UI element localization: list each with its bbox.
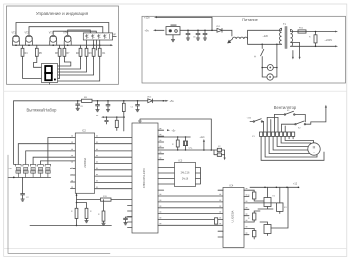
wire bottom return [8, 155, 110, 253]
relay coil K3 [260, 187, 288, 235]
node junction dots bus [15, 44, 100, 46]
svg-text:IC3: IC3 [179, 159, 183, 162]
pushbutton SB4 [38, 164, 44, 177]
resistor R15 [77, 203, 93, 223]
capacitor C9 [96, 101, 100, 112]
varistor RU1 [309, 31, 317, 47]
wire choke to transformer [248, 30, 282, 39]
wire secondary bottom [291, 45, 336, 47]
svg-text:ULN2003A: ULN2003A [232, 210, 235, 222]
resistor R5 [35, 45, 42, 58]
node +12v pin arrow [200, 137, 206, 150]
svg-text:+5v: +5v [170, 99, 175, 103]
svg-text:сто: сто [9, 168, 12, 170]
capacitor C7 [203, 30, 207, 40]
wire IC1 to IC3 rows [158, 168, 175, 185]
node junctions on rail [187, 30, 213, 32]
svg-text:C6: C6 [193, 37, 195, 39]
transistor VT4 [63, 33, 71, 46]
IC DD2 [75, 130, 94, 194]
svg-text:~220V: ~220V [325, 38, 333, 42]
svg-text:24c16: 24c16 [182, 179, 189, 181]
node +5v arrow [166, 99, 175, 103]
svg-text:24LC16: 24LC16 [181, 172, 190, 175]
wire button track 3 [33, 157, 70, 164]
node rail junctions [77, 100, 164, 102]
svg-text:+12v: +12v [144, 16, 150, 20]
pushbutton SB2 [23, 164, 29, 177]
svg-text:+12v: +12v [200, 137, 206, 139]
lamp HL2 [267, 44, 277, 80]
resistor R4 [21, 45, 28, 58]
svg-text:C8: C8 [80, 106, 82, 108]
svg-text:+5v: +5v [145, 28, 150, 32]
capacitor C13 [21, 177, 30, 201]
voltage regulator DA1 [166, 24, 180, 35]
resistor R7 [63, 45, 70, 58]
wire IC1 left lower stubs [128, 206, 133, 228]
IC IC4 [223, 184, 244, 247]
wire IC4 left extra stubs [218, 190, 223, 237]
diode VD2 [147, 97, 153, 103]
wire IC2 left pin stubs [71, 138, 76, 189]
wire display bottom [49, 83, 51, 85]
svg-text:VT4: VT4 [63, 33, 68, 35]
ground (regulator) [171, 35, 174, 42]
wire IC2 to IC1 rows [95, 138, 132, 189]
pushbutton SB3 [30, 164, 36, 177]
wire IC1 right pin stubs [158, 130, 164, 190]
inductor L1 [228, 37, 248, 43]
switch SA1 [254, 44, 267, 77]
wire IC3 right stubs [196, 168, 201, 185]
lamp HL1 [261, 65, 277, 71]
wire driver bottom pins [87, 40, 100, 50]
wire bus C [53, 31, 96, 35]
resistor R11 [172, 137, 179, 150]
resistor R21 [249, 228, 256, 239]
relay coil K1 [258, 187, 276, 209]
capacitor C11 [131, 101, 140, 112]
resistor R17 [115, 116, 118, 130]
diode VD1 [216, 26, 222, 32]
node output arrows [335, 31, 338, 48]
wire keyboard left drop [14, 101, 16, 165]
wire IC4 right pin stubs [244, 190, 249, 235]
wire contact drops [264, 115, 286, 132]
contact K1.1 [274, 110, 305, 122]
wire button track 2 [26, 151, 71, 165]
wire XTAL top [158, 136, 190, 137]
wire reset line [96, 115, 124, 118]
resistor R10 [122, 101, 125, 131]
resistor R6 [55, 45, 61, 58]
wire secondary taps [291, 43, 301, 60]
node +5v pin arrow [158, 129, 176, 132]
node bus end arrow [13, 44, 112, 46]
wire +5V out [156, 29, 165, 31]
contact SA2 [247, 118, 264, 123]
svg-text:VT2: VT2 [25, 33, 30, 35]
IC DD1 [132, 120, 158, 233]
IC IC3 [175, 159, 196, 186]
connector X2 [214, 146, 226, 160]
block frame: Питание [142, 16, 346, 83]
relay coil K2 [249, 187, 287, 213]
svg-text:C1: C1 [131, 107, 133, 109]
resistor R8 [92, 45, 95, 58]
resistor R9 [82, 97, 93, 102]
wire secondary top [306, 31, 335, 33]
pushbutton SB1 [16, 164, 22, 177]
node +12V [144, 16, 157, 20]
resistor R1 [98, 45, 106, 58]
resistor R20 [248, 211, 260, 222]
node pin number marks [71, 128, 247, 234]
svg-text:Вентилятор: Вентилятор [274, 105, 297, 110]
svg-text:~220: ~220 [263, 35, 269, 38]
wire keyboard common bus [8, 176, 51, 178]
capacitor C5 [186, 30, 190, 40]
wire button track 1 [18, 144, 70, 165]
capacitor C14 [124, 217, 133, 225]
transistor VT2 [25, 33, 33, 46]
wire IC1 to IC4 rows [158, 196, 223, 225]
svg-text:Управление и индикация: Управление и индикация [36, 11, 89, 16]
wire XTAL bottom / X2 feed [158, 149, 217, 151]
svg-text:ДП: ДП [113, 34, 116, 36]
wire resistor bottoms to display [23, 59, 100, 82]
wire fan feed arrow [311, 105, 327, 122]
wire regulator output rail [180, 30, 232, 36]
wire +12 rail (drivers) [250, 187, 299, 189]
wire long top feed [140, 119, 211, 150]
node +5V [145, 28, 157, 32]
capacitor C15 [105, 116, 109, 124]
resistor R3 [85, 45, 92, 58]
svg-text:Вытяжка\Набор: Вытяжка\Набор [27, 108, 58, 113]
capacitor C6 [193, 30, 200, 40]
capacitor C10 [106, 101, 110, 112]
motor M1 [308, 143, 320, 155]
block frame: Управление и индикация [7, 6, 119, 84]
node bus junction [13, 177, 15, 179]
connector X1 terminal strip [252, 132, 295, 138]
wire under bottom [30, 225, 111, 227]
svg-text:+12: +12 [293, 183, 298, 186]
7-segment indicator HG1 [42, 64, 58, 83]
wire +5V rail [14, 100, 166, 102]
pushbutton SB5 [45, 164, 51, 177]
resistor R2 [76, 45, 82, 58]
svg-text:(к): (к) [254, 56, 257, 58]
transistor VT3 [49, 33, 57, 46]
resistor R18 [215, 218, 218, 224]
contact K1.2 [282, 121, 311, 130]
svg-text:IC4: IC4 [230, 184, 234, 187]
transistor VT1 [12, 33, 20, 46]
crystal ZQ1 [183, 137, 193, 150]
svg-text:IC2: IC2 [82, 130, 86, 133]
wire button track 4 [41, 161, 71, 165]
svg-text:VT3: VT3 [49, 33, 54, 35]
wire primary bottom [248, 39, 282, 45]
svg-text:Питание: Питание [242, 17, 259, 22]
svg-text:M: M [313, 146, 316, 150]
IC driver DD1 (transistor array) [83, 33, 116, 40]
svg-text:AT89C2051-24PC: AT89C2051-24PC [143, 168, 146, 188]
wire bus D [68, 30, 91, 35]
wire IC2 bottom drop [76, 193, 78, 203]
resistor R14 [71, 203, 78, 226]
wire +12V feed [157, 17, 213, 30]
resistor R16 [98, 200, 105, 226]
fuse FU1 [291, 28, 307, 33]
svg-text:LM9033A: LM9033A [84, 157, 87, 168]
wire bus B [29, 27, 103, 35]
svg-text:пв: пв [96, 115, 98, 117]
wire bus A [16, 23, 109, 36]
resistor R19 [248, 190, 264, 201]
svg-text:VT1: VT1 [12, 33, 17, 35]
wire terminal routes to motor [261, 136, 324, 160]
wire button track 5 [48, 138, 71, 165]
capacitor C8 [76, 101, 83, 111]
transformer T1 [280, 23, 293, 48]
wire R13 row [77, 196, 133, 201]
